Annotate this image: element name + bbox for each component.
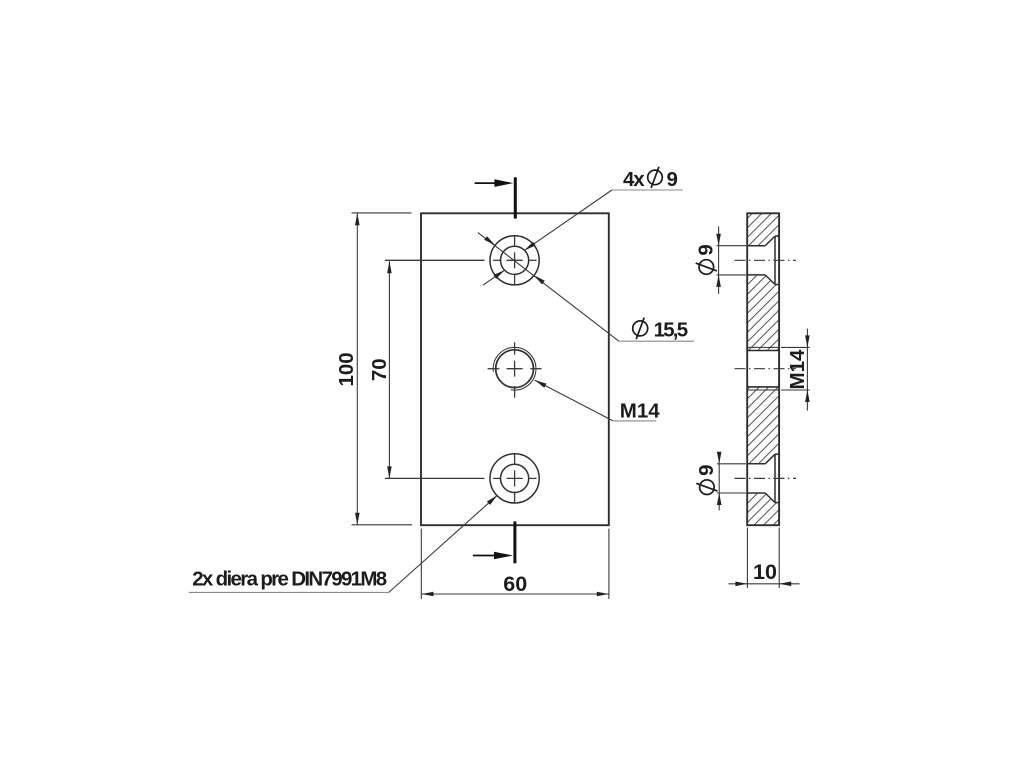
svg-text:2x diera pre DIN7991M8: 2x diera pre DIN7991M8 bbox=[192, 567, 387, 590]
dimension 10 line bbox=[729, 583, 800, 585]
label 4x dia9 underline bbox=[612, 189, 683, 191]
side bottom hole bore lines bbox=[747, 463, 765, 465]
leader 4x dia9 label line bbox=[524, 190, 612, 250]
leader dia15.5 line through hole bbox=[478, 233, 619, 342]
svg-text:15,5: 15,5 bbox=[654, 318, 689, 341]
dimension dia9 bottom text bbox=[695, 464, 718, 494]
dimension 60 line bbox=[422, 593, 609, 595]
svg-text:70: 70 bbox=[368, 358, 391, 381]
dimension 70 line bbox=[388, 261, 390, 478]
dimension dia9 top extension lines bbox=[717, 245, 747, 247]
side view outline bbox=[747, 213, 779, 525]
note 2x diera underline bbox=[189, 591, 389, 593]
note 2x diera leader line bbox=[389, 495, 498, 592]
dimension dia9 top text bbox=[695, 244, 718, 274]
middle hole M14 thread circle (3/4 arc) bbox=[493, 347, 536, 390]
leader 4x dia9 opposite arrow bbox=[483, 270, 505, 285]
cutting plane line bottom (thick) bbox=[513, 521, 516, 563]
dimension 60 extension line right bbox=[608, 529, 610, 599]
dimension 10 extension lines bbox=[746, 528, 748, 589]
svg-text:60: 60 bbox=[503, 572, 527, 596]
top hole horizontal centerline bbox=[385, 259, 485, 261]
dimension 60 extension line left bbox=[420, 529, 422, 599]
top countersunk hole outer circle (countersink dia 15.5) bbox=[490, 236, 539, 285]
dimension dia9 bottom line bbox=[718, 454, 720, 511]
side top hole bore lines bbox=[747, 245, 765, 247]
side top hole countersink mouth bbox=[774, 236, 776, 284]
dimension 100 line bbox=[356, 213, 358, 525]
dimension 100 extension line bottom bbox=[352, 524, 413, 526]
front view plate outline bbox=[421, 213, 609, 525]
svg-text:9: 9 bbox=[695, 244, 718, 255]
side M14 centerline bbox=[735, 368, 797, 370]
svg-text:10: 10 bbox=[753, 560, 777, 584]
svg-text:4x: 4x bbox=[623, 168, 645, 191]
cutting plane line top (thick) bbox=[514, 177, 517, 218]
section hatching bbox=[745, 137, 781, 562]
side bottom hole centerline bbox=[735, 477, 797, 479]
dimension dia9 top line bbox=[718, 227, 720, 294]
dimension 100 extension line top bbox=[352, 212, 412, 214]
dimension M14 extension lines bbox=[781, 346, 810, 348]
svg-text:M14: M14 bbox=[786, 349, 809, 389]
side bottom hole countersink mouth bbox=[774, 454, 776, 502]
svg-text:9: 9 bbox=[695, 464, 718, 475]
side bottom hole countersink cone bbox=[765, 454, 775, 464]
top hole vertical centerline bbox=[514, 236, 516, 246]
leader M14 line bbox=[535, 380, 613, 421]
bottom hole horizontal centerline bbox=[385, 477, 485, 479]
bottom countersunk hole inner circle (dia 9) bbox=[500, 464, 528, 492]
label M14 underline bbox=[613, 420, 656, 422]
label dia15.5 text bbox=[633, 321, 648, 336]
side M14 thread major lines bbox=[747, 346, 779, 348]
label dia15.5 underline bbox=[619, 340, 694, 342]
bottom hole vertical centerline bbox=[514, 454, 516, 464]
dimension dia9 bottom extension lines bbox=[717, 463, 746, 465]
cutting plane arrow top bbox=[475, 182, 500, 184]
cutting plane arrow bottom bbox=[473, 555, 498, 557]
middle hole horizontal centerline bbox=[488, 368, 500, 370]
side M14 minor bore lines bbox=[747, 350, 779, 352]
svg-text:100: 100 bbox=[335, 352, 358, 386]
bottom countersunk hole outer circle bbox=[490, 454, 539, 503]
top countersunk hole inner circle (dia 9) bbox=[500, 246, 528, 274]
svg-text:9: 9 bbox=[667, 168, 678, 191]
side top hole centerline bbox=[735, 259, 797, 261]
middle hole M14 minor circle bbox=[496, 350, 534, 388]
middle hole vertical centerline bbox=[514, 342, 516, 354]
svg-text:M14: M14 bbox=[620, 399, 660, 422]
side top hole countersink cone bbox=[765, 236, 775, 246]
dimension M14 line bbox=[806, 329, 808, 411]
